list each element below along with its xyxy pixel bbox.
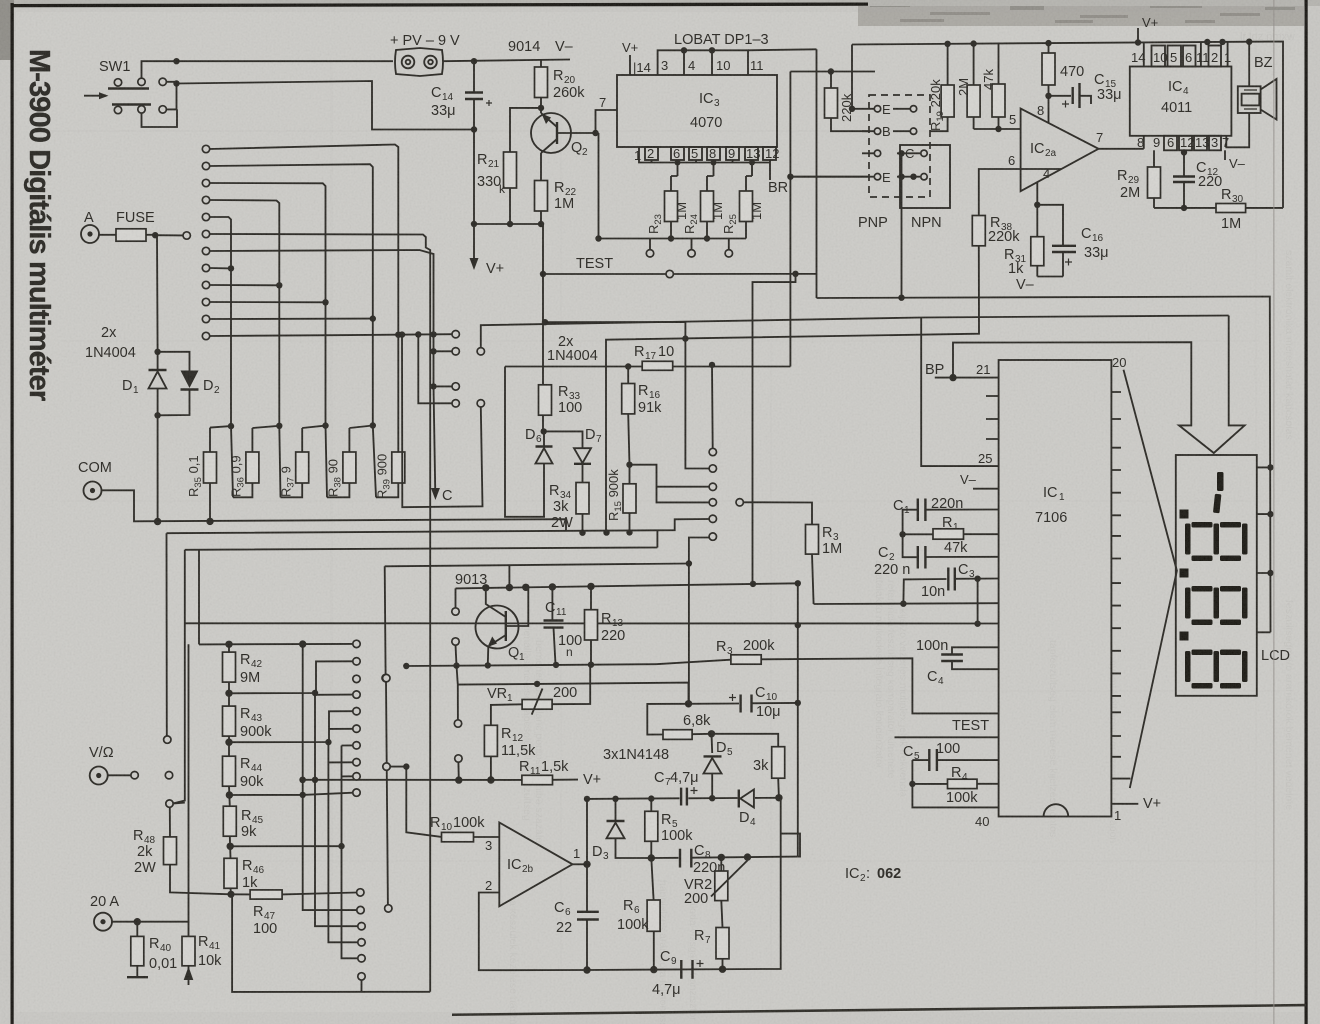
pin ticks left xyxy=(986,396,999,439)
resistor 470 xyxy=(1042,43,1084,96)
LCD digit 8a xyxy=(1185,524,1191,555)
resistor R33 100 xyxy=(539,384,583,416)
resistor R4 100k xyxy=(909,765,998,806)
pin 12 node xyxy=(1183,150,1185,176)
LCD digit 1 xyxy=(1217,472,1224,491)
wire TEST line xyxy=(543,273,666,275)
resistor R24 1M xyxy=(682,176,725,239)
wire LOBAT bus extension to TEST column xyxy=(748,49,817,50)
node collector rail dots xyxy=(482,584,489,591)
resistor R10 100k xyxy=(430,815,499,842)
bus oscillator V- rail xyxy=(587,799,781,971)
wire contact 5 to R35 column xyxy=(209,217,231,426)
LCD dp3 xyxy=(1180,632,1189,641)
wire contact 4 to R36 column xyxy=(209,200,279,425)
bus V+ rail xyxy=(302,779,522,781)
wire R17 column to contact xyxy=(711,365,714,449)
wire SW1 second pole xyxy=(166,81,474,130)
resistor R30 1M xyxy=(1154,187,1283,232)
wire pin bus under IC3 xyxy=(639,147,770,180)
resistor R19 220k xyxy=(928,44,954,131)
diode D4 xyxy=(739,790,756,829)
resistor R40 0.01 xyxy=(127,922,177,978)
page top hairline xyxy=(11,3,869,8)
LCD dp1 xyxy=(1180,510,1189,519)
capacitor C5 100 xyxy=(903,741,999,807)
wire output node xyxy=(573,863,588,865)
node C14 bottom xyxy=(471,126,477,132)
fuse FUSE xyxy=(116,210,190,241)
wire contact 10 xyxy=(209,301,325,303)
resistor R5 100k xyxy=(645,799,693,858)
resistor 6.8k xyxy=(647,704,711,740)
capacitor C4 100n xyxy=(916,638,999,687)
wire C8 rail zigzag to V- xyxy=(781,834,800,857)
socket dashed box xyxy=(869,95,930,197)
resistor R11 1.5k xyxy=(519,759,601,788)
node SW1/battery junction xyxy=(173,58,179,64)
diode D1 xyxy=(122,352,167,416)
capacitor C3 10n xyxy=(921,562,999,624)
resistor R29 2M xyxy=(1117,150,1161,208)
page bottom rule xyxy=(452,1004,1306,1016)
capacitor C16 33u xyxy=(1037,205,1108,277)
resistor R38 90 xyxy=(326,426,373,498)
wire display backplane rail xyxy=(817,297,1271,633)
LCD dp2 xyxy=(1180,569,1189,578)
wire feedback contact column xyxy=(452,608,459,615)
socket NPN solid box xyxy=(900,145,950,208)
wire battery to V- xyxy=(443,60,570,62)
capacitor C14 xyxy=(431,61,492,129)
terminal COM xyxy=(78,460,566,531)
wire V+ node bus xyxy=(474,223,544,225)
capacitor C12 220 xyxy=(1173,160,1222,208)
pin ticks right xyxy=(1111,392,1130,779)
wire base bus to comparator (row2 rail) xyxy=(481,316,1229,348)
wire contact 7 to socket column xyxy=(209,250,433,386)
wire buffer contact column xyxy=(709,533,716,540)
resistor 3k xyxy=(712,734,785,798)
terminal V/ohm xyxy=(89,736,173,785)
pin 8 stub to comparator output xyxy=(1143,136,1145,149)
resistor R47 100 xyxy=(231,890,357,937)
bus auto-zero rail xyxy=(185,622,999,624)
LCD digit 8b xyxy=(1185,588,1191,619)
top pin boxes xyxy=(1144,42,1228,67)
wire rail drop to V-ohm contact xyxy=(166,533,168,736)
diode D6 xyxy=(525,427,553,517)
page right border rule xyxy=(1305,0,1308,1024)
resistor R21 xyxy=(477,152,517,224)
wire rail jog xyxy=(508,565,510,587)
pin 4 stub xyxy=(1036,182,1038,205)
wire rail drop to ladder top xyxy=(198,550,200,645)
wire TEST drop xyxy=(542,224,544,431)
pin 14 stub / V+ xyxy=(629,55,631,75)
resistor R41 10k xyxy=(182,922,222,985)
bus lower rail xyxy=(185,530,658,550)
resistor R12 11.5k xyxy=(484,725,536,780)
wire contact 1 to R39 column xyxy=(209,145,398,453)
wire contact 8 xyxy=(209,267,231,269)
bottom pin boxes 2 6 5 8 9 13 12 xyxy=(645,147,776,160)
node pin8/C15 xyxy=(1045,93,1051,99)
wire V+ drop xyxy=(473,130,475,263)
bus to ladder bottom rail xyxy=(232,894,430,992)
capacitor C2 220n xyxy=(874,534,999,578)
resistor R7 xyxy=(694,901,729,970)
wire SW1 lower pole U-link xyxy=(142,84,178,128)
wire contact 6 to bottom rail xyxy=(209,234,430,992)
resistor R44 90k xyxy=(223,756,265,806)
wire LCD backplane taps xyxy=(1257,467,1271,632)
bus V-Ohm rail xyxy=(167,519,710,533)
wire contact 11 xyxy=(209,318,372,320)
resistor R17 10 xyxy=(634,344,674,370)
resistor R6 100k xyxy=(617,858,660,970)
resistor R16 91k xyxy=(622,367,662,465)
op-amp IC2a xyxy=(1021,109,1099,192)
page left border rule xyxy=(11,3,14,1024)
buzzer BZ xyxy=(1226,42,1276,148)
node D6 xyxy=(541,428,547,434)
resistor R42 9M xyxy=(223,644,263,706)
fold line xyxy=(1273,0,1275,1024)
socket row 3 xyxy=(434,385,453,387)
wire diodes to COM bus xyxy=(157,415,159,521)
bus VR1 wiper rail xyxy=(458,683,689,704)
capacitor C1 220n xyxy=(893,496,999,534)
socket row 2 xyxy=(434,350,453,352)
wire contact 9 xyxy=(209,284,279,286)
resistor R13 220 xyxy=(585,586,626,664)
wire range contact column mid xyxy=(386,681,388,905)
wire BP to IC1 pin 21 xyxy=(935,377,999,379)
terminal A xyxy=(81,210,116,243)
resistor R20 xyxy=(535,60,586,108)
op IC3 box xyxy=(617,75,777,147)
resistor R39 900 xyxy=(373,426,405,500)
switch SW1 contacts xyxy=(108,78,166,114)
diode D5 xyxy=(704,734,734,798)
socket row 1 circle xyxy=(452,331,459,338)
wire oscillator rail column xyxy=(456,583,798,856)
terminal 20A xyxy=(90,644,189,931)
LCD box xyxy=(1176,455,1257,696)
bus ohm-source rail xyxy=(385,564,689,567)
capacitor C10 10u xyxy=(689,685,798,720)
wire crossover row1 to row4 contact xyxy=(402,335,483,508)
resistor R31 1k xyxy=(1004,205,1044,277)
wire rail drop to R48 contact xyxy=(172,550,185,804)
diode D7 xyxy=(544,427,602,483)
capacitor C7 4.7u xyxy=(654,770,699,806)
bus integrator input xyxy=(814,602,999,605)
wire IC2a pin5 xyxy=(974,128,1021,130)
pin V+ stub xyxy=(1111,803,1138,805)
resistor R23 1M xyxy=(646,176,689,239)
resistor R34 3k 2W xyxy=(549,483,589,533)
resistor R43 900k xyxy=(223,706,273,756)
rotary switch contact column xyxy=(202,145,209,339)
wire fan-out diagonals to LCD xyxy=(1124,370,1177,788)
capacitor C8 220n xyxy=(651,843,798,876)
capacitor C11 100n xyxy=(544,587,583,664)
transistor Q2 xyxy=(531,108,596,181)
resistor R3 1M xyxy=(743,502,842,604)
bottom pin labels xyxy=(1137,135,1229,150)
wire IC2a pin6 xyxy=(979,169,1061,216)
node C14 top xyxy=(471,58,477,64)
wire contact 12 / socket row 1 xyxy=(209,334,452,336)
switch actuator arrow xyxy=(84,95,106,97)
resistor 2M xyxy=(956,44,980,129)
diode D2 xyxy=(158,352,220,416)
op IC4 box xyxy=(1130,67,1232,136)
diode D3 xyxy=(592,799,651,862)
wire ladder junction taps xyxy=(229,661,353,693)
resistor R22 xyxy=(535,180,577,224)
wire pin2 feedback loop xyxy=(479,893,587,971)
pin 8 stub xyxy=(1048,96,1050,123)
wire collector C probe xyxy=(434,386,436,494)
potentiometer VR2 200 xyxy=(684,857,748,907)
resistor R37 9 xyxy=(278,426,325,498)
wire contact 2 to R38 column xyxy=(209,164,372,425)
resistor 220k (hFE) xyxy=(825,72,870,132)
wire BP rail to LCD arrow xyxy=(953,316,1245,454)
bottom pin boxes xyxy=(1164,136,1221,151)
LCD digit 8c xyxy=(1185,651,1191,682)
wire R38 to left rail xyxy=(606,246,979,531)
resistor R35 0.1 xyxy=(186,426,231,521)
wire TEST to oscillator rail xyxy=(753,274,796,584)
wire IC3 pin1 column xyxy=(598,133,600,239)
wire divider top bus R17 rail xyxy=(505,366,790,368)
wire outer loop to contact xyxy=(545,322,709,469)
op IC1 box xyxy=(999,360,1112,817)
wire R21 link xyxy=(510,108,541,152)
wire branch to IC1 pin xyxy=(921,318,998,467)
bus emitter rail xyxy=(406,664,656,666)
top pin labels xyxy=(1131,50,1231,65)
bus ladder top xyxy=(199,643,353,646)
wire left loop to D6 foot xyxy=(505,367,545,517)
resistor R36 0.9 xyxy=(229,426,280,498)
wire left 220k feed xyxy=(790,45,875,367)
socket row 4 xyxy=(418,335,452,404)
wire comparator taps to contacts xyxy=(630,465,710,503)
bus oscillator top rail xyxy=(587,798,779,799)
capacitor C9 4.7u xyxy=(652,949,704,998)
pin 7 stub xyxy=(596,110,618,133)
label V- under pin 3 xyxy=(1224,150,1226,160)
resistor 47k xyxy=(981,43,1005,129)
op-amp IC2b xyxy=(485,823,580,907)
socket contact rows E B C E xyxy=(790,102,927,185)
potentiometer VR1 200 xyxy=(487,665,590,725)
wire IC2a output pin 7 xyxy=(1099,148,1144,150)
resistor R46 1k xyxy=(224,858,265,894)
wire C3 left branch xyxy=(903,579,946,604)
battery connector PV xyxy=(395,48,443,76)
wire output to top osc rail xyxy=(586,799,588,912)
capacitor C15 33u xyxy=(1049,72,1122,108)
wire C column to comparator bus xyxy=(901,153,903,298)
resistor R3 200k in rail xyxy=(656,638,999,713)
wire SW1 to battery bus xyxy=(142,61,394,78)
capacitor C6 22 xyxy=(554,900,599,970)
resistor R25 1M xyxy=(721,176,764,239)
resistor R1 47k xyxy=(903,515,999,556)
resistor R45 9k xyxy=(223,806,263,858)
wire LOBAT top bus xyxy=(658,50,748,75)
wire fuse to diodes xyxy=(156,235,159,352)
node R20/R21/Q2 xyxy=(538,105,544,111)
wire top V+ bus xyxy=(852,42,1283,208)
transistor Q1 xyxy=(476,587,529,664)
resistor R38 220k xyxy=(972,215,1020,246)
resistor R48 2k 2W xyxy=(133,800,231,894)
paper grain overlay xyxy=(0,0,1,1)
pin labels 1 2 6 5 8 9 13 12 xyxy=(634,146,779,163)
wire R23-R25 bottom bus xyxy=(599,239,747,250)
resistor R15 900k xyxy=(606,465,636,533)
wire contact 3 to R37 column xyxy=(209,183,325,425)
wire wiper feed column xyxy=(390,767,442,837)
